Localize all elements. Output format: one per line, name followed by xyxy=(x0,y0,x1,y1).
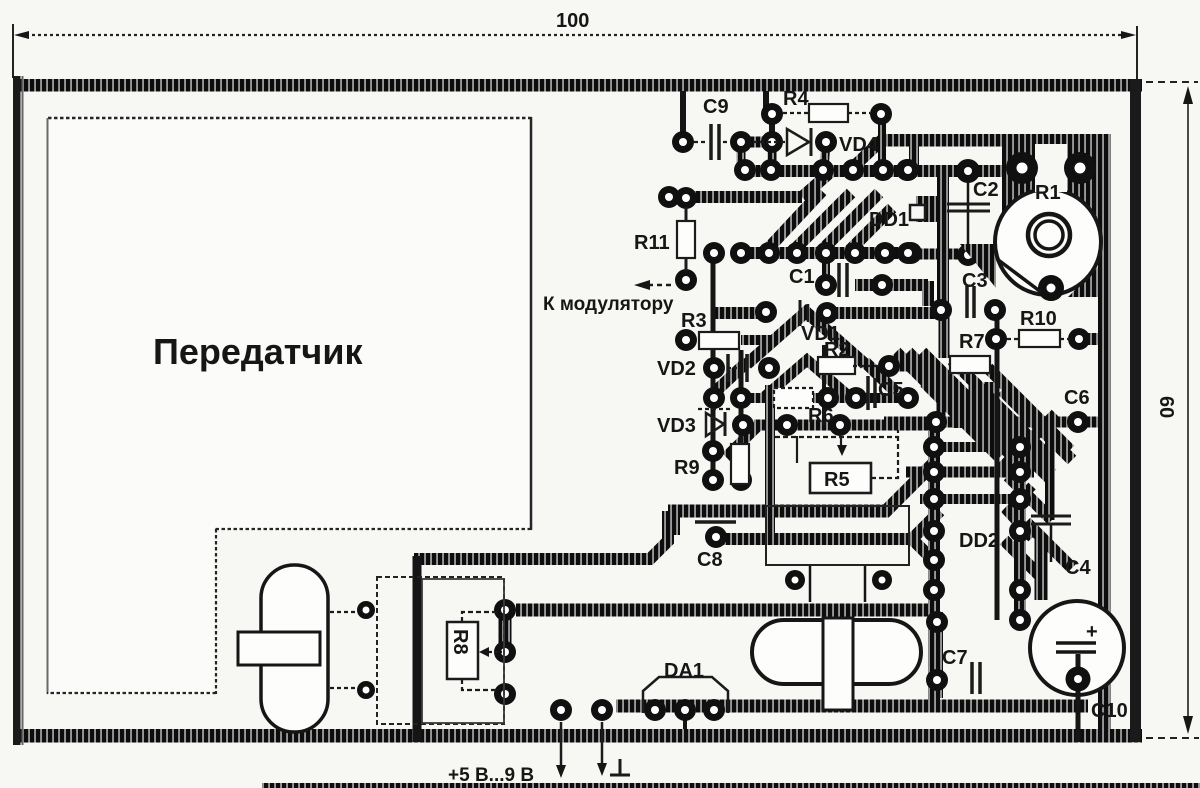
svg-text:C3: C3 xyxy=(962,270,988,292)
svg-text:DD2: DD2 xyxy=(959,530,999,552)
svg-text:R2: R2 xyxy=(824,339,850,361)
svg-text:К модулятору: К модулятору xyxy=(543,294,674,315)
svg-text:VD4: VD4 xyxy=(839,134,879,156)
svg-text:R5: R5 xyxy=(824,469,850,491)
svg-text:R11: R11 xyxy=(634,232,670,254)
svg-text:R8: R8 xyxy=(449,629,471,655)
svg-text:C7: C7 xyxy=(942,647,968,669)
svg-text:C6: C6 xyxy=(1064,387,1090,409)
svg-text:R6: R6 xyxy=(808,405,834,427)
svg-text:R9: R9 xyxy=(674,457,700,479)
svg-text:C9: C9 xyxy=(703,96,729,118)
svg-text:R7: R7 xyxy=(959,331,985,353)
svg-text:VD3: VD3 xyxy=(657,415,696,437)
svg-text:+5 В...9 В: +5 В...9 В xyxy=(448,765,534,786)
svg-text:C10: C10 xyxy=(1091,700,1128,722)
svg-text:60: 60 xyxy=(1155,396,1177,418)
svg-text:C2: C2 xyxy=(973,179,999,201)
svg-text:C5: C5 xyxy=(878,379,904,401)
svg-text:C4: C4 xyxy=(1065,557,1091,579)
svg-text:C8: C8 xyxy=(697,549,723,571)
svg-text:C1: C1 xyxy=(789,266,815,288)
svg-text:+: + xyxy=(1086,621,1098,643)
svg-text:DD1: DD1 xyxy=(869,209,909,231)
svg-text:R4: R4 xyxy=(783,88,809,110)
svg-text:100: 100 xyxy=(556,10,589,32)
svg-text:R10: R10 xyxy=(1020,308,1057,330)
svg-text:VD2: VD2 xyxy=(657,358,696,380)
svg-text:R3: R3 xyxy=(681,310,707,332)
svg-text:DA1: DA1 xyxy=(664,660,704,682)
svg-text:R1: R1 xyxy=(1035,182,1061,204)
svg-text:Передатчик: Передатчик xyxy=(153,331,363,372)
